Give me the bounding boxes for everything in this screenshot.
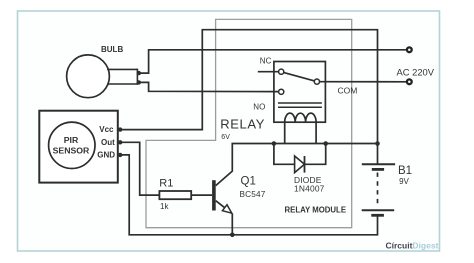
svg-text:9V: 9V [399, 177, 409, 186]
junction dot bulb bottom [137, 80, 141, 84]
junction dot bulb top [137, 71, 141, 75]
svg-text:6V: 6V [221, 134, 230, 141]
junction dot emitter on bottom rail [230, 233, 235, 238]
transistor Q1 emitter arrowhead [222, 205, 231, 214]
PIR sensor lens circle [49, 122, 95, 168]
svg-text:Out: Out [101, 138, 115, 147]
junction dot diode left on rail [272, 141, 277, 146]
transistor Q1 base bar [212, 180, 216, 210]
PIR sensor module box [39, 111, 118, 183]
battery B1 plate long bottom [362, 209, 395, 211]
junction dot PIR GND [118, 153, 122, 157]
junction dot PIR Vcc [118, 127, 122, 131]
relay armature (NC to COM) [283, 72, 314, 81]
svg-text:Q1: Q1 [241, 176, 256, 188]
svg-text:R1: R1 [159, 178, 173, 190]
svg-text:RELAY: RELAY [220, 116, 265, 131]
svg-text:COM: COM [338, 86, 358, 96]
wire: PIR Vcc to battery positive (top loop) [120, 30, 378, 164]
bulb LP1 [67, 55, 110, 98]
AC top terminal [407, 47, 412, 52]
svg-text:CírcuitDigest: CírcuitDigest [386, 241, 439, 251]
wire: PIR GND to bottom rail and battery negative [120, 155, 378, 235]
svg-text:AC 220V: AC 220V [397, 66, 435, 77]
svg-text:1N4007: 1N4007 [294, 184, 325, 194]
bulb base bottom line [107, 83, 137, 85]
svg-text:BC547: BC547 [240, 190, 266, 199]
relay coil [285, 113, 316, 122]
junction dot diode right on rail [323, 141, 328, 146]
svg-text:NC: NC [260, 56, 272, 65]
svg-text:RELAY MODULE: RELAY MODULE [285, 206, 347, 215]
wire: diode left branch [274, 144, 295, 165]
wire: Q1 collector to coil rail to battery [216, 144, 378, 186]
svg-text:GND: GND [97, 150, 115, 159]
wire: relay coil right lead [315, 122, 317, 143]
battery B1 plate long top [362, 163, 395, 165]
junction dot PIR Out [118, 140, 122, 144]
wire: R1 to Q1 base [191, 194, 212, 196]
relay COM terminal [314, 79, 319, 84]
relay NO terminal [279, 89, 284, 94]
wire: relay COM to AC bottom terminal [319, 81, 409, 83]
svg-text:Vcc: Vcc [99, 125, 114, 134]
junction dot battery positive on rail [375, 141, 380, 146]
wire: bulb bottom terminal to relay NO contact [139, 82, 279, 91]
battery B1 plate short top [372, 168, 384, 171]
bulb base end cap [136, 69, 138, 85]
wire: bulb top terminal to AC top terminal [139, 50, 409, 73]
wire: relay coil left lead [284, 122, 286, 143]
svg-text:B1: B1 [398, 165, 412, 177]
svg-text:BULB: BULB [101, 45, 123, 54]
wire: Q1 emitter to bottom rail [231, 214, 233, 235]
relay NC terminal [279, 69, 284, 74]
diode D1 triangle [295, 156, 305, 173]
wire: PIR Out to resistor R1 [120, 142, 159, 195]
transistor Q1 emitter line [216, 201, 232, 214]
svg-text:1k: 1k [160, 202, 169, 211]
relay core line 1 [278, 102, 322, 104]
AC bottom terminal [407, 79, 412, 84]
relay contact box [274, 62, 326, 123]
diode D1 cathode bar [304, 156, 306, 173]
svg-text:NO: NO [253, 103, 265, 112]
relay core line 2 [278, 106, 322, 108]
wire: diode right branch [305, 144, 326, 165]
resistor R1 body [159, 191, 191, 199]
relay module boundary (gray outline) [146, 19, 352, 227]
wire: NC stub [258, 71, 279, 73]
svg-text:PIR: PIR [64, 135, 79, 145]
battery B1 dashed middle [377, 173, 379, 207]
battery B1 plate short bottom [371, 214, 384, 217]
svg-text:SENSOR: SENSOR [53, 145, 90, 155]
bulb base top line [107, 68, 137, 70]
